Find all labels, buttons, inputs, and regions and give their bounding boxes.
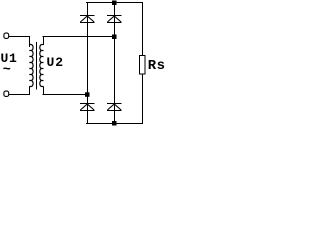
svg-text:~: ~ [3,63,11,78]
wire secondary bottom lead to bridge [43,87,88,95]
junction dot bottom return node [112,121,117,126]
wire right bridge rail [114,2,116,123]
wire left bridge rail [87,2,89,123]
wire primary top lead [9,37,30,48]
transformer core [36,42,38,90]
junction dot AC node right rail [112,35,117,40]
svg-text:U2: U2 [47,55,65,70]
transformer primary winding [29,45,33,87]
wire top output bus [86,2,143,4]
wire secondary top lead to bridge [43,37,115,46]
svg-text:Rs: Rs [148,58,165,74]
diode D1 (bridge top-left) [80,16,95,23]
wire bottom return bus [86,123,143,125]
wire primary bottom lead [9,87,30,95]
terminal T2 (AC input bottom) [4,91,9,96]
diode D3 (bridge bottom-left) [80,104,95,111]
diode D4 (bridge bottom-right) [107,104,122,111]
diode D2 (bridge top-right) [107,16,122,23]
resistor Rs body [140,56,146,75]
wire load rail upper [142,2,144,55]
transformer secondary winding [40,45,44,87]
junction dot top output node [112,1,117,6]
terminal T1 (AC input top) [4,33,9,38]
junction dot AC node left rail [85,92,90,97]
wire load rail lower [142,74,144,124]
